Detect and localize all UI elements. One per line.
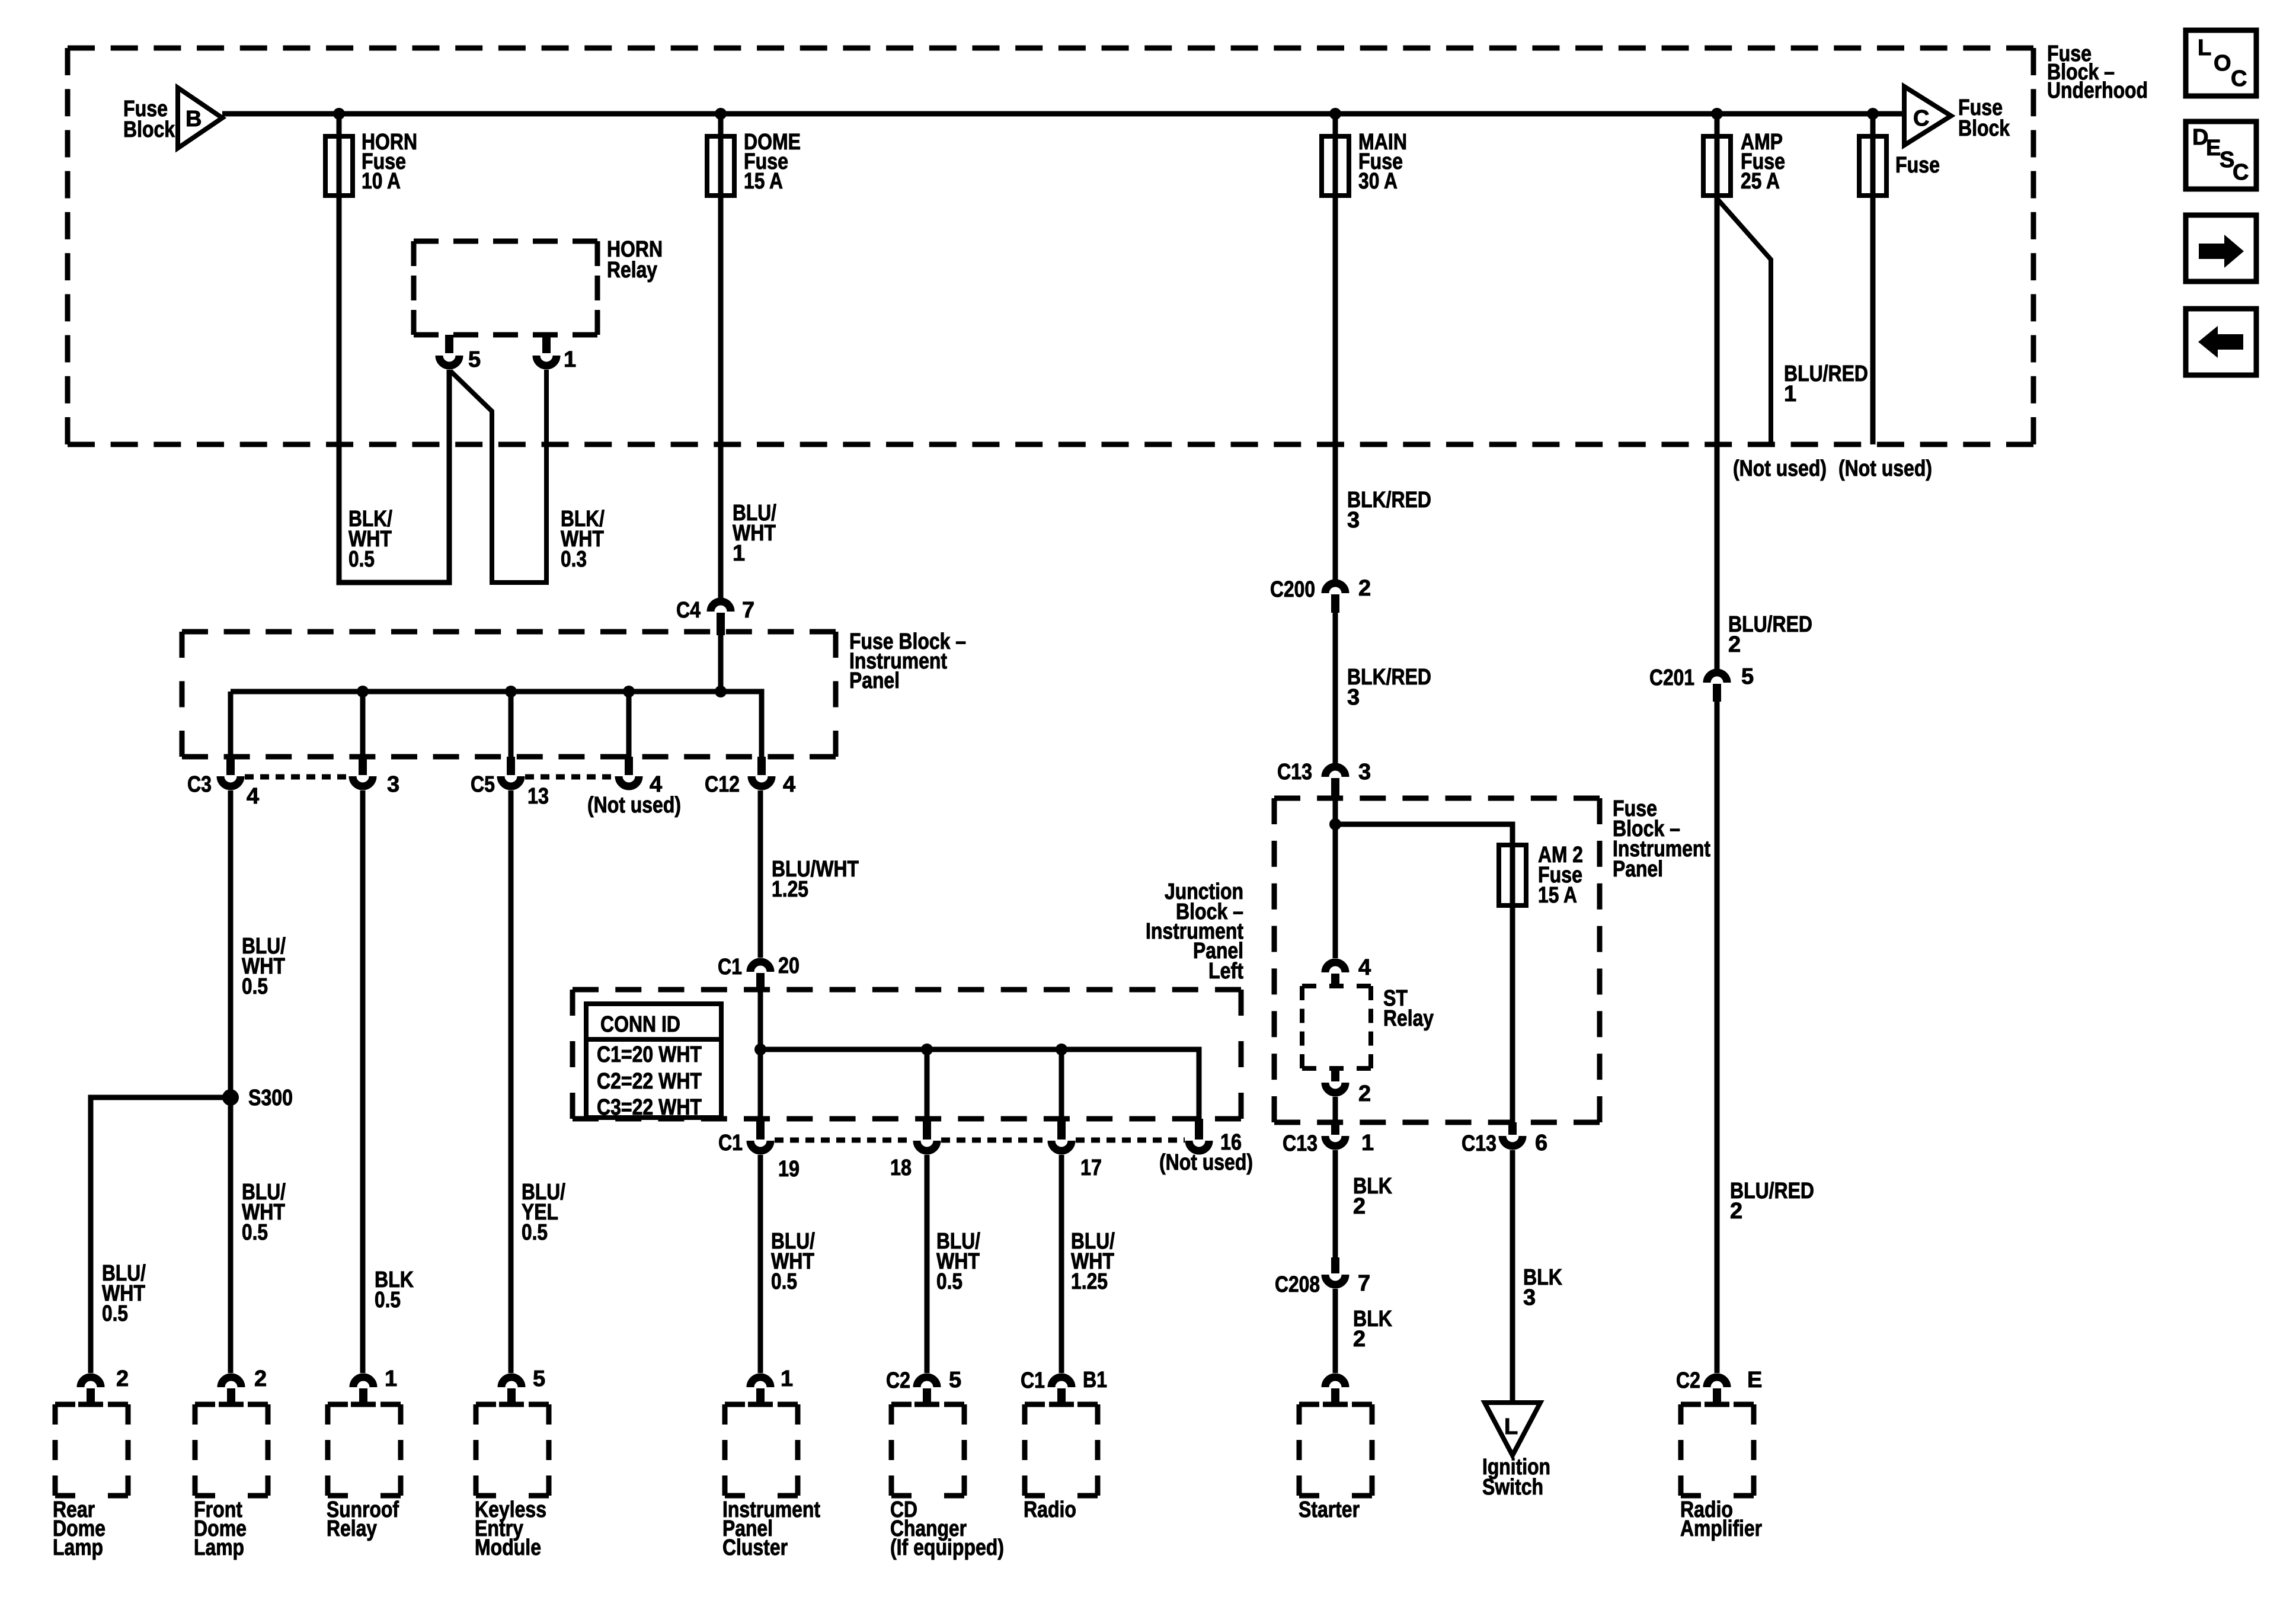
svg-text:7: 7 [742, 598, 754, 623]
LOC legend box [2186, 30, 2256, 96]
svg-text:1: 1 [733, 541, 745, 566]
wire 18 to cd changer [925, 1155, 930, 1373]
svg-text:B: B [186, 107, 202, 132]
svg-text:C3: C3 [187, 772, 212, 797]
wire MAIN fuse drop [1333, 114, 1338, 580]
wire spare fuse drop [1870, 114, 1876, 444]
keyless entry module dashed box [476, 1402, 549, 1407]
svg-text:2: 2 [1730, 1199, 1742, 1224]
svg-text:Relay: Relay [1383, 1006, 1434, 1031]
fuse block triangle B [178, 88, 222, 148]
sunroof relay dashed box [328, 1402, 401, 1407]
horn relay pin 1 [542, 335, 551, 353]
junction dot bus-C4 [715, 686, 727, 697]
conn id table [586, 1004, 721, 1118]
svg-text:E: E [1747, 1368, 1762, 1393]
svg-text:C13: C13 [1277, 760, 1312, 785]
connector starter [1325, 1377, 1345, 1387]
horn relay dashed box [414, 239, 597, 244]
wire HORN fuse drop [337, 114, 342, 582]
connector C3 pin 4 [226, 757, 235, 775]
fuse AMP 25A [1703, 136, 1731, 196]
svg-text:15 A: 15 A [744, 169, 783, 194]
svg-text:(Not used): (Not used) [1733, 456, 1827, 481]
svg-text:3: 3 [1347, 685, 1360, 710]
svg-text:0.5: 0.5 [242, 974, 268, 999]
svg-text:C: C [2233, 160, 2249, 185]
svg-text:5: 5 [533, 1366, 545, 1391]
connector pin 17 [1057, 1119, 1066, 1140]
instrument panel cluster dashed box [725, 1402, 798, 1407]
horn relay pin 5 [445, 335, 453, 353]
svg-text:5: 5 [468, 347, 481, 372]
svg-text:1: 1 [564, 347, 576, 372]
wire C208 to starter [1333, 1289, 1338, 1373]
junction dot HORN [333, 108, 345, 120]
svg-text:Lamp: Lamp [194, 1535, 244, 1560]
wire C4 pin into panel bus [718, 635, 724, 692]
svg-text:C3=22 WHT: C3=22 WHT [597, 1095, 702, 1120]
svg-text:C: C [2231, 66, 2247, 91]
svg-text:5: 5 [1741, 664, 1754, 689]
connector ST relay pin 4 [1325, 962, 1345, 972]
svg-text:15 A: 15 A [1538, 883, 1577, 908]
svg-text:BLK/RED: BLK/RED [1347, 665, 1431, 690]
svg-text:O: O [2214, 51, 2231, 76]
svg-text:2: 2 [1728, 632, 1741, 657]
connector C1 pin 20 [750, 962, 770, 972]
connector C200 pin 2 [1325, 583, 1345, 593]
front dome lamp dashed box [195, 1402, 268, 1407]
connector C13 pin 1 [1331, 1122, 1339, 1135]
junction dot jb 18 [921, 1044, 933, 1055]
dotted link 18-17 [941, 1138, 1047, 1143]
connector C208 pin 7 [1331, 1257, 1339, 1273]
dotted link 19-18 [775, 1138, 913, 1143]
wire branch to AM2 fuse [1335, 824, 1512, 1125]
svg-text:E: E [2206, 136, 2221, 161]
wire BLK/WHT 0.3 loop relay pin 5 to pin 1 [450, 370, 546, 582]
svg-text:Block: Block [123, 117, 175, 142]
wire C12 to C1-20 [758, 790, 763, 958]
svg-text:Switch: Switch [1482, 1475, 1543, 1500]
wire 17 to radio [1059, 1155, 1064, 1373]
junction block instrument panel left dashed box [573, 987, 1241, 993]
connector sunroof relay pin 1 [353, 1377, 373, 1387]
connector C13 pin 6 [1508, 1122, 1517, 1135]
svg-text:B1: B1 [1083, 1368, 1107, 1393]
svg-text:Module: Module [475, 1535, 541, 1560]
svg-text:3: 3 [1523, 1285, 1536, 1310]
svg-text:4: 4 [247, 784, 259, 809]
svg-text:25 A: 25 A [1741, 169, 1780, 194]
svg-text:Relay: Relay [607, 258, 657, 283]
svg-text:Block: Block [1958, 116, 2010, 141]
svg-text:Relay: Relay [327, 1516, 377, 1541]
svg-text:13: 13 [527, 784, 549, 809]
svg-text:C13: C13 [1283, 1131, 1318, 1156]
svg-text:0.5: 0.5 [242, 1220, 268, 1245]
junction dot MAIN [1329, 108, 1341, 120]
connector C2 pin E [1707, 1377, 1727, 1387]
rear dome lamp dashed box [55, 1402, 128, 1407]
wire S300 to front dome lamp [228, 1097, 234, 1373]
svg-text:2: 2 [254, 1366, 267, 1391]
svg-text:Panel: Panel [849, 668, 900, 693]
connector rear dome lamp pin 2 [81, 1377, 101, 1387]
fuse MAIN 30A [1322, 136, 1349, 196]
wire ST relay to C13-1 [1333, 1097, 1338, 1122]
svg-text:L: L [2198, 36, 2211, 60]
fuse DOME 15A [707, 136, 734, 196]
svg-text:BLU/RED: BLU/RED [1728, 612, 1812, 637]
connector C12 pin 4 [757, 757, 766, 775]
svg-text:C1: C1 [1021, 1368, 1045, 1393]
ST relay dashed box [1302, 984, 1371, 988]
svg-text:30 A: 30 A [1358, 169, 1398, 194]
junction dot spare fuse [1867, 108, 1879, 120]
wire sunroof relay drop [360, 790, 366, 1373]
cd changer dashed box [891, 1402, 964, 1407]
forward arrow legend box [2186, 215, 2256, 281]
dotted connector link C3-3 [245, 774, 348, 780]
svg-text:1: 1 [1361, 1131, 1374, 1156]
svg-text:Cluster: Cluster [722, 1535, 788, 1560]
fuse AM2 15A [1499, 845, 1526, 905]
connector C1 pin B1 radio [1051, 1377, 1072, 1387]
svg-text:3: 3 [1347, 508, 1360, 533]
svg-text:C12: C12 [705, 772, 740, 797]
svg-text:Starter: Starter [1299, 1497, 1360, 1522]
svg-text:C5: C5 [471, 772, 495, 797]
svg-text:1: 1 [781, 1366, 793, 1391]
svg-text:18: 18 [890, 1156, 912, 1180]
svg-text:19: 19 [778, 1157, 800, 1182]
svg-text:0.5: 0.5 [375, 1288, 401, 1313]
svg-text:6: 6 [1535, 1131, 1547, 1156]
junction dot panel bus at C3 drop [228, 692, 234, 757]
junction dot jb C1 [754, 1044, 766, 1055]
dotted link 17-16 [1076, 1138, 1185, 1143]
svg-text:C2: C2 [886, 1368, 910, 1393]
svg-text:3: 3 [387, 772, 399, 797]
svg-text:BLK/RED: BLK/RED [1347, 488, 1431, 513]
svg-text:2: 2 [116, 1366, 129, 1391]
svg-text:2: 2 [1358, 1081, 1371, 1106]
svg-text:2: 2 [1353, 1194, 1366, 1219]
svg-text:2: 2 [1358, 576, 1371, 601]
ignition switch triangle L [1485, 1403, 1540, 1455]
DESC legend box [2186, 121, 2256, 189]
svg-text:C1: C1 [718, 1131, 743, 1156]
svg-text:Panel: Panel [1613, 857, 1663, 882]
junction dot am2 branch [1329, 818, 1341, 830]
svg-text:7: 7 [1358, 1271, 1370, 1296]
junction dot DOME [715, 108, 727, 120]
connector C1 pin 19 [756, 1119, 765, 1140]
svg-text:0.5: 0.5 [936, 1269, 962, 1294]
wire rear dome branch [228, 790, 234, 1097]
junction dot bus-C5 [505, 686, 517, 697]
svg-text:S300: S300 [248, 1086, 293, 1110]
svg-text:1: 1 [1784, 382, 1796, 406]
wire 19 to instrument panel cluster [758, 1155, 763, 1373]
svg-text:CONN ID: CONN ID [600, 1012, 680, 1037]
wire C13-3 into block [1333, 798, 1338, 958]
fuse block instrument panel dashed box [182, 629, 836, 635]
svg-text:Radio: Radio [1024, 1497, 1076, 1522]
connector C13 pin 3 [1325, 767, 1345, 777]
svg-text:BLU/RED: BLU/RED [1730, 1179, 1814, 1204]
wire C200 to C13-3 [1333, 613, 1338, 764]
connector pin 4 not used [625, 757, 633, 775]
connector C2 pin 5 cd changer [917, 1377, 937, 1387]
connector pin 18 [923, 1119, 931, 1140]
connector C201 pin 5 [1707, 673, 1727, 683]
svg-text:(Not used): (Not used) [1159, 1150, 1253, 1175]
svg-text:C2=22 WHT: C2=22 WHT [597, 1069, 702, 1094]
wire DOME fuse drop [718, 114, 724, 598]
svg-text:C1: C1 [718, 955, 742, 980]
svg-text:Left: Left [1208, 959, 1243, 984]
wire BLU/RED 1 stub not used [1717, 199, 1771, 444]
radio amplifier dashed box [1681, 1402, 1754, 1407]
svg-text:L: L [1504, 1414, 1518, 1439]
junction dot jb 17 [1056, 1044, 1067, 1055]
fuse spare [1859, 136, 1886, 196]
svg-text:(Not used): (Not used) [587, 793, 681, 818]
fuse block instrument panel right dashed box [1274, 796, 1600, 801]
svg-text:10 A: 10 A [362, 169, 401, 194]
bus wire from B triangle [222, 111, 1904, 117]
svg-text:C2: C2 [1676, 1368, 1700, 1393]
svg-text:(Not used): (Not used) [1838, 456, 1932, 481]
svg-text:20: 20 [778, 953, 800, 978]
panel bus wire [231, 692, 762, 757]
connector C4 pin 7 [711, 601, 731, 612]
splice S300 [222, 1089, 239, 1106]
svg-text:0.3: 0.3 [561, 547, 587, 572]
back arrow legend box [2186, 309, 2256, 375]
svg-text:Fuse: Fuse [1895, 153, 1940, 178]
svg-text:C13: C13 [1462, 1131, 1496, 1156]
connector instrument panel cluster pin 1 [750, 1377, 770, 1387]
junction dot bus-4 [623, 686, 635, 697]
dotted connector link C5-4 [525, 774, 615, 780]
connector C5 pin 13 [507, 757, 515, 775]
svg-text:1.25: 1.25 [1071, 1269, 1108, 1294]
wire keyless entry drop [509, 790, 514, 1373]
svg-text:4: 4 [783, 772, 795, 797]
connector pin 3 [359, 757, 367, 775]
svg-text:Lamp: Lamp [53, 1535, 103, 1560]
fuse block triangle C [1904, 87, 1951, 145]
connector front dome lamp pin 2 [221, 1377, 241, 1387]
svg-text:C1=20 WHT: C1=20 WHT [597, 1042, 702, 1067]
wire AMP fuse drop [1715, 114, 1720, 670]
radio dashed box [1025, 1402, 1098, 1407]
svg-text:C: C [1913, 106, 1929, 131]
wire C201 to C2-E [1715, 702, 1720, 1373]
svg-text:1.25: 1.25 [772, 877, 808, 902]
svg-text:Amplifier: Amplifier [1680, 1516, 1762, 1541]
svg-text:C208: C208 [1275, 1272, 1320, 1297]
svg-text:4: 4 [1358, 955, 1371, 980]
svg-text:0.5: 0.5 [522, 1220, 548, 1245]
wire BLK/WHT 0.5 loop horn fuse to relay pin 5 [339, 370, 449, 582]
fuse HORN 10A [325, 136, 353, 196]
svg-text:2: 2 [1353, 1327, 1366, 1352]
starter dashed box [1299, 1402, 1372, 1407]
svg-text:(If equipped): (If equipped) [890, 1535, 1004, 1560]
connector pin 16 not used [1195, 1119, 1203, 1140]
connector ST relay pin 2 [1331, 1068, 1339, 1081]
junction dot AMP [1711, 108, 1723, 120]
svg-text:0.5: 0.5 [348, 547, 375, 572]
svg-text:Underhood: Underhood [2047, 78, 2148, 103]
wire S300 to rear dome lamp [91, 1097, 231, 1373]
svg-text:1: 1 [385, 1366, 397, 1391]
svg-text:C4: C4 [676, 598, 701, 623]
junction dot bus-3 [357, 686, 369, 697]
svg-text:0.5: 0.5 [102, 1301, 128, 1326]
svg-text:17: 17 [1080, 1156, 1102, 1180]
svg-text:C200: C200 [1270, 577, 1315, 602]
svg-text:BLU/RED: BLU/RED [1784, 361, 1868, 386]
wire C13-6 to ignition switch [1510, 1150, 1515, 1403]
wire C13-1 to C208 [1333, 1150, 1338, 1257]
svg-text:3: 3 [1358, 760, 1371, 785]
connector keyless entry pin 5 [501, 1377, 522, 1387]
junction bus wire [760, 1049, 1199, 1119]
wire C1-20 pin into junction bus [758, 990, 763, 1049]
svg-text:C201: C201 [1649, 665, 1694, 690]
svg-text:5: 5 [949, 1368, 961, 1393]
svg-text:0.5: 0.5 [771, 1269, 797, 1294]
fuse block underhood dashed box [68, 46, 2033, 51]
